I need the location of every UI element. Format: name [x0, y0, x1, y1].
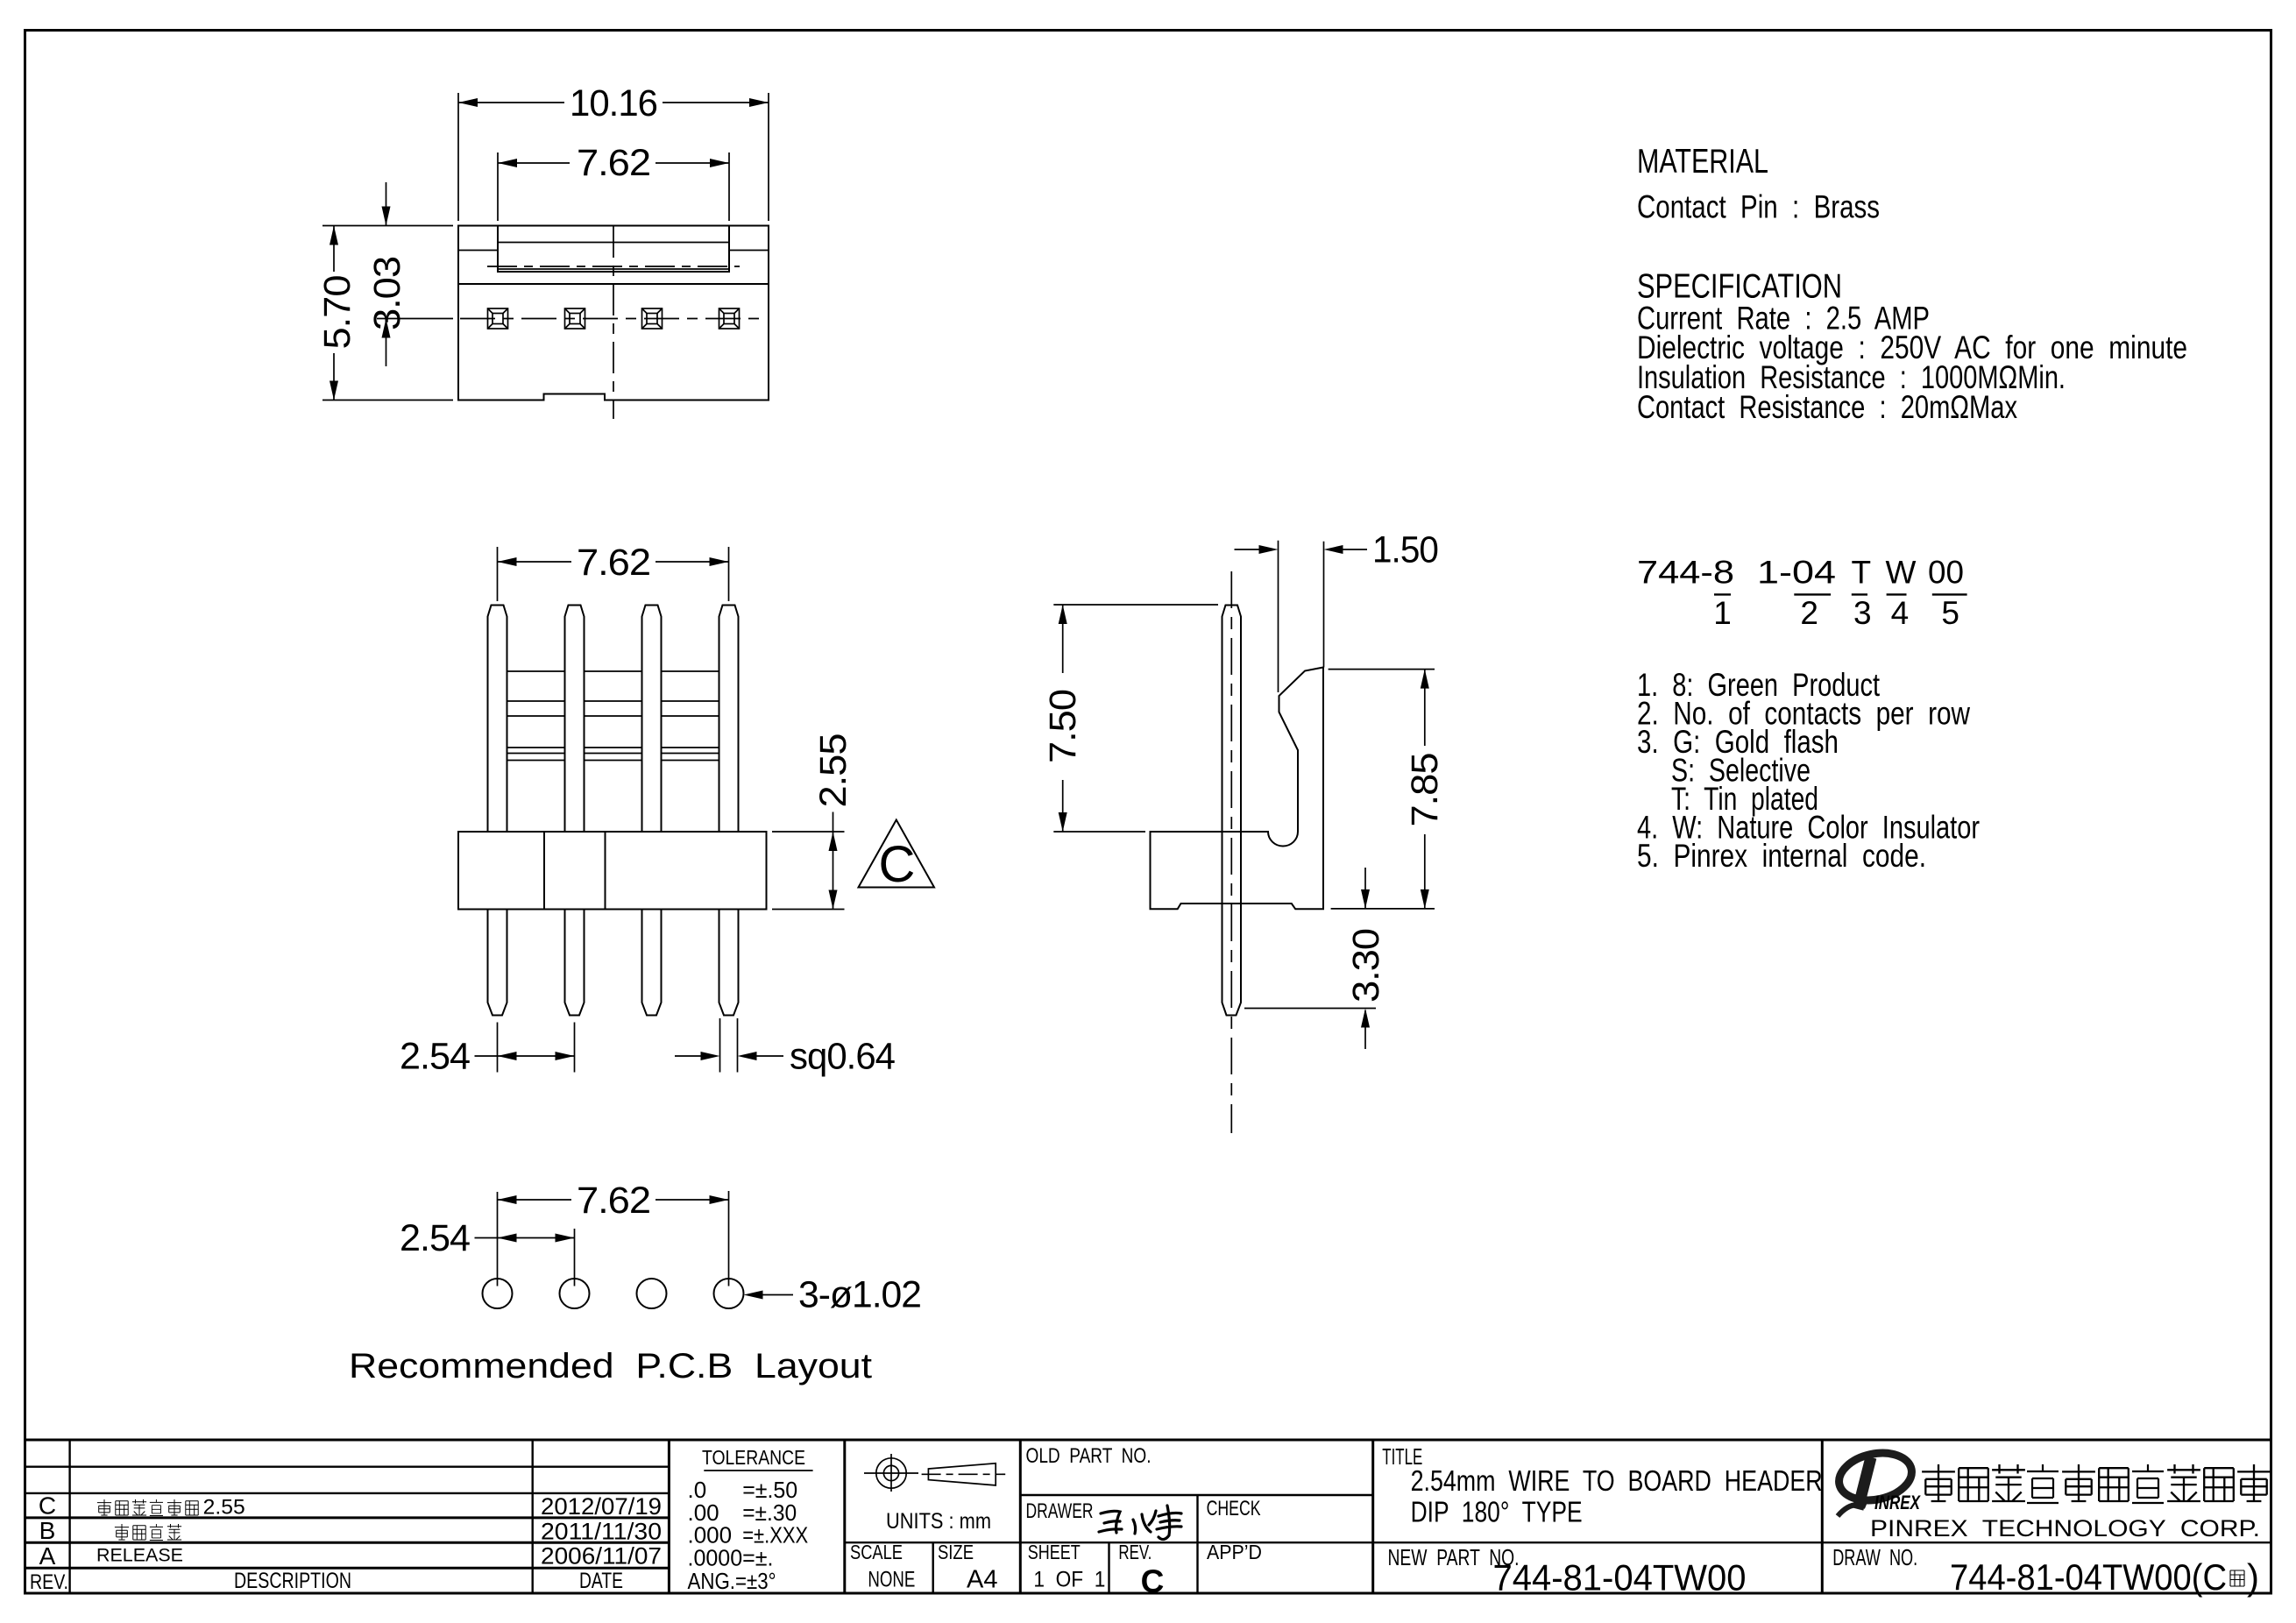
svg-text:C: C	[1141, 1563, 1165, 1599]
svg-text:3.03: 3.03	[366, 257, 408, 330]
svg-text:C: C	[879, 836, 916, 893]
svg-text:744-8: 744-8	[1637, 555, 1734, 591]
svg-text:W: W	[1886, 555, 1917, 591]
svg-text:2.55: 2.55	[203, 1496, 245, 1520]
datum triangle C	[859, 820, 935, 888]
svg-text:REV.: REV.	[30, 1570, 68, 1594]
svg-text:DESCRIPTION: DESCRIPTION	[234, 1569, 351, 1593]
dimension 7.62 front view: extension lines	[497, 547, 499, 601]
top view: tongue hidden centerline dash-dot	[487, 266, 740, 267]
projection symbol: target circle	[864, 1454, 918, 1492]
top view: vertical dashed centerline	[613, 226, 614, 419]
dimension 3-ø1.02: arrow and leader	[744, 1291, 763, 1300]
dimension sq0.64: right arrow and leader	[738, 1052, 757, 1060]
dimension 2.54: extension lines	[497, 1023, 499, 1073]
svg-text:NONE: NONE	[868, 1568, 915, 1592]
svg-text:3-ø1.02: 3-ø1.02	[798, 1274, 921, 1316]
svg-text:1: 1	[1713, 595, 1732, 631]
dimension 2.54: dimension line and arrows	[475, 1055, 575, 1057]
svg-text:7.62: 7.62	[577, 542, 650, 584]
svg-text:1-04: 1-04	[1757, 555, 1836, 591]
svg-text:00: 00	[1928, 555, 1964, 591]
svg-text:2.54: 2.54	[400, 1036, 470, 1078]
svg-text:UNITS : mm: UNITS : mm	[886, 1509, 991, 1534]
svg-text:SCALE: SCALE	[850, 1541, 903, 1563]
svg-text:DATE: DATE	[579, 1569, 623, 1593]
svg-text:INREX: INREX	[1874, 1492, 1921, 1513]
projection symbol: cone	[922, 1464, 1006, 1485]
top view: full width inner line	[458, 283, 769, 285]
front view: pin 3 upper	[642, 606, 662, 833]
svg-text:1.50: 1.50	[1372, 529, 1438, 571]
svg-text:TOLERANCE: TOLERANCE	[702, 1446, 805, 1469]
dimension sq0.64: left arrow	[675, 1055, 705, 1057]
svg-text:2012/07/19: 2012/07/19	[541, 1493, 662, 1520]
svg-text:10.16: 10.16	[570, 82, 657, 124]
top view: mating tongue rectangle	[498, 226, 729, 273]
top view: pin 4 square	[719, 308, 740, 329]
svg-text:A4: A4	[967, 1565, 997, 1593]
svg-text:7.62: 7.62	[577, 1180, 650, 1222]
top view: pin 3 square	[642, 308, 663, 329]
svg-text:5: 5	[1941, 595, 1959, 631]
svg-text:SHEET: SHEET	[1028, 1541, 1081, 1563]
top view: tongue inner line	[498, 242, 729, 244]
dimension sq0.64: extension lines	[719, 1018, 721, 1073]
dimension 7.62 pcb: dimension line and arrows	[498, 1199, 572, 1201]
front view: pin 1 lower	[488, 910, 507, 1016]
pinrex logo P	[1835, 1447, 1922, 1516]
svg-text:sq0.64: sq0.64	[790, 1036, 895, 1078]
front view: comb ladder lines between pins	[507, 671, 719, 761]
svg-text:Contact Pin : Brass: Contact Pin : Brass	[1637, 189, 1880, 225]
table: horizontal lines	[25, 1440, 2271, 1568]
revision B description (chinese)	[115, 1524, 181, 1540]
front view: pin 3 lower	[642, 910, 662, 1016]
svg-text:3: 3	[1853, 595, 1872, 631]
svg-text:DRAWER: DRAWER	[1026, 1499, 1094, 1523]
svg-text:7.85: 7.85	[1404, 753, 1446, 826]
top view: right side step line	[729, 250, 769, 252]
dimension 7.62 front view: dimension line and arrows	[498, 561, 572, 563]
svg-text:744-81-04TW00: 744-81-04TW00	[1493, 1556, 1747, 1598]
svg-text:.0000=±.: .0000=±.	[688, 1545, 774, 1571]
svg-text:RELEASE: RELEASE	[96, 1546, 183, 1566]
svg-text:2: 2	[1800, 595, 1818, 631]
svg-text:DRAW NO.: DRAW NO.	[1832, 1544, 1917, 1570]
dimension 1.50: extension lines	[1278, 541, 1279, 692]
top view: horizontal pin-row centerline dash-dot	[460, 318, 767, 320]
top view: pin 1 square	[488, 308, 508, 329]
svg-text:Recommended P.C.B Layout: Recommended P.C.B Layout	[349, 1347, 872, 1386]
front view: pin 2 lower	[565, 910, 585, 1016]
dimension 2.55: dimension line and arrows	[833, 812, 834, 910]
top view: pin 2 square	[565, 308, 585, 329]
top view: left side step line	[458, 250, 498, 252]
svg-text:DIP 180° TYPE: DIP 180° TYPE	[1411, 1496, 1583, 1528]
dimension 3.03: upper arrow stub	[386, 182, 387, 226]
front view: pin 2 upper	[565, 606, 585, 833]
svg-text:2.55: 2.55	[812, 734, 854, 807]
front view: housing body rectangle	[458, 832, 767, 910]
dimension 1.50: right arrow and leader	[1324, 545, 1343, 554]
dimension 3.30: pin tip extension line	[1244, 1008, 1376, 1010]
dimension 5.70: dimension line and arrows	[333, 226, 335, 273]
svg-text:): )	[2247, 1556, 2259, 1598]
svg-text:PINREX TECHNOLOGY CORP.: PINREX TECHNOLOGY CORP.	[1870, 1515, 2260, 1541]
dimension 1.50: left arrow	[1235, 549, 1265, 550]
svg-text:744-81-04TW00(C: 744-81-04TW00(C	[1950, 1556, 2227, 1598]
front view: pin 1 upper	[488, 606, 507, 833]
svg-text:7.50: 7.50	[1042, 690, 1084, 763]
top view: housing outline with bottom notch	[458, 226, 769, 400]
front view: housing body divider lines	[543, 832, 545, 910]
drawer signature (chinese brush)	[1099, 1506, 1181, 1540]
svg-text:OLD PART NO.: OLD PART NO.	[1026, 1444, 1152, 1468]
side view: pin dashed centerline	[1230, 571, 1232, 1133]
svg-text:5.70: 5.70	[316, 275, 358, 349]
dimension 7.50: dimension line and arrows	[1062, 605, 1064, 673]
revision C description (chinese)	[97, 1496, 245, 1520]
svg-text:SIZE: SIZE	[938, 1541, 974, 1563]
svg-text:APP’D: APP’D	[1207, 1541, 1262, 1563]
svg-text:2.54: 2.54	[400, 1217, 470, 1259]
svg-text:1 OF 1: 1 OF 1	[1033, 1568, 1105, 1592]
pcb layout: hole 4	[714, 1279, 744, 1308]
dimension 3.30: upper arrow stub	[1364, 868, 1366, 909]
side view: pin outline	[1222, 606, 1242, 1016]
svg-text:2006/11/07: 2006/11/07	[541, 1543, 662, 1570]
dimension 7.50: extension lines	[1053, 604, 1218, 606]
table: vertical lines	[70, 1440, 1823, 1593]
dimension 2.55: extension lines	[772, 831, 845, 833]
pcb layout: hole 4 extension line	[728, 1191, 730, 1286]
front view: pin 4 lower	[719, 910, 739, 1016]
pcb layout: hole 1 extension line	[497, 1192, 499, 1286]
front view: pin 4 upper	[719, 606, 739, 833]
svg-text:C: C	[39, 1492, 56, 1520]
dimension 3.03: lower arrow stub	[386, 319, 387, 367]
dimension 5.70: extension lines	[322, 225, 453, 227]
svg-text:4: 4	[1891, 595, 1910, 631]
svg-text:Contact Resistance : 20mΩMa: Contact Resistance : 20mΩMax	[1637, 389, 2017, 425]
svg-text:MATERIAL: MATERIAL	[1637, 143, 1768, 181]
svg-text:REV.: REV.	[1118, 1541, 1152, 1563]
dimension 2.54 pcb: dimension line and arrows	[475, 1237, 575, 1239]
svg-text:A: A	[39, 1542, 56, 1570]
pcb layout: hole 3	[637, 1279, 667, 1308]
dimension 7.85: dimension line and arrows	[1424, 670, 1426, 746]
dimension 7.62 top view: dimension line and arrows	[498, 162, 570, 164]
svg-text:T: T	[1852, 555, 1872, 591]
side view: housing body with latch profile	[1151, 668, 1324, 910]
svg-text:7.62: 7.62	[577, 142, 650, 184]
svg-text:2011/11/30: 2011/11/30	[541, 1518, 662, 1544]
svg-text:CHECK: CHECK	[1207, 1497, 1261, 1520]
pcb layout: hole 2 extension line	[574, 1229, 576, 1286]
top view: centerline left extension	[377, 318, 453, 320]
dimension 7.85: extension lines	[1329, 669, 1435, 670]
dimension 7.62 top view: extension lines	[497, 152, 499, 221]
top view: tongue bottom double line	[498, 268, 729, 270]
svg-text:2.54mm WIRE TO BOARD HEADE: 2.54mm WIRE TO BOARD HEADER	[1411, 1464, 1823, 1497]
svg-text:ANG.=±3°: ANG.=±3°	[688, 1568, 776, 1594]
svg-text:5. Pinrex internal code.: 5. Pinrex internal code.	[1637, 838, 1926, 874]
company chinese name	[1922, 1464, 2271, 1503]
svg-text:3.30: 3.30	[1345, 929, 1387, 1003]
part number underlines	[1714, 593, 1967, 595]
dimension 10.16: extension lines	[457, 93, 459, 221]
dimension 10.16: dimension line and arrows	[458, 102, 564, 103]
dimension 3.30: lower arrow stub	[1364, 1010, 1366, 1049]
pcb layout: hole 1	[483, 1279, 513, 1308]
svg-text:B: B	[39, 1517, 56, 1544]
pcb layout: hole 2	[560, 1279, 590, 1308]
